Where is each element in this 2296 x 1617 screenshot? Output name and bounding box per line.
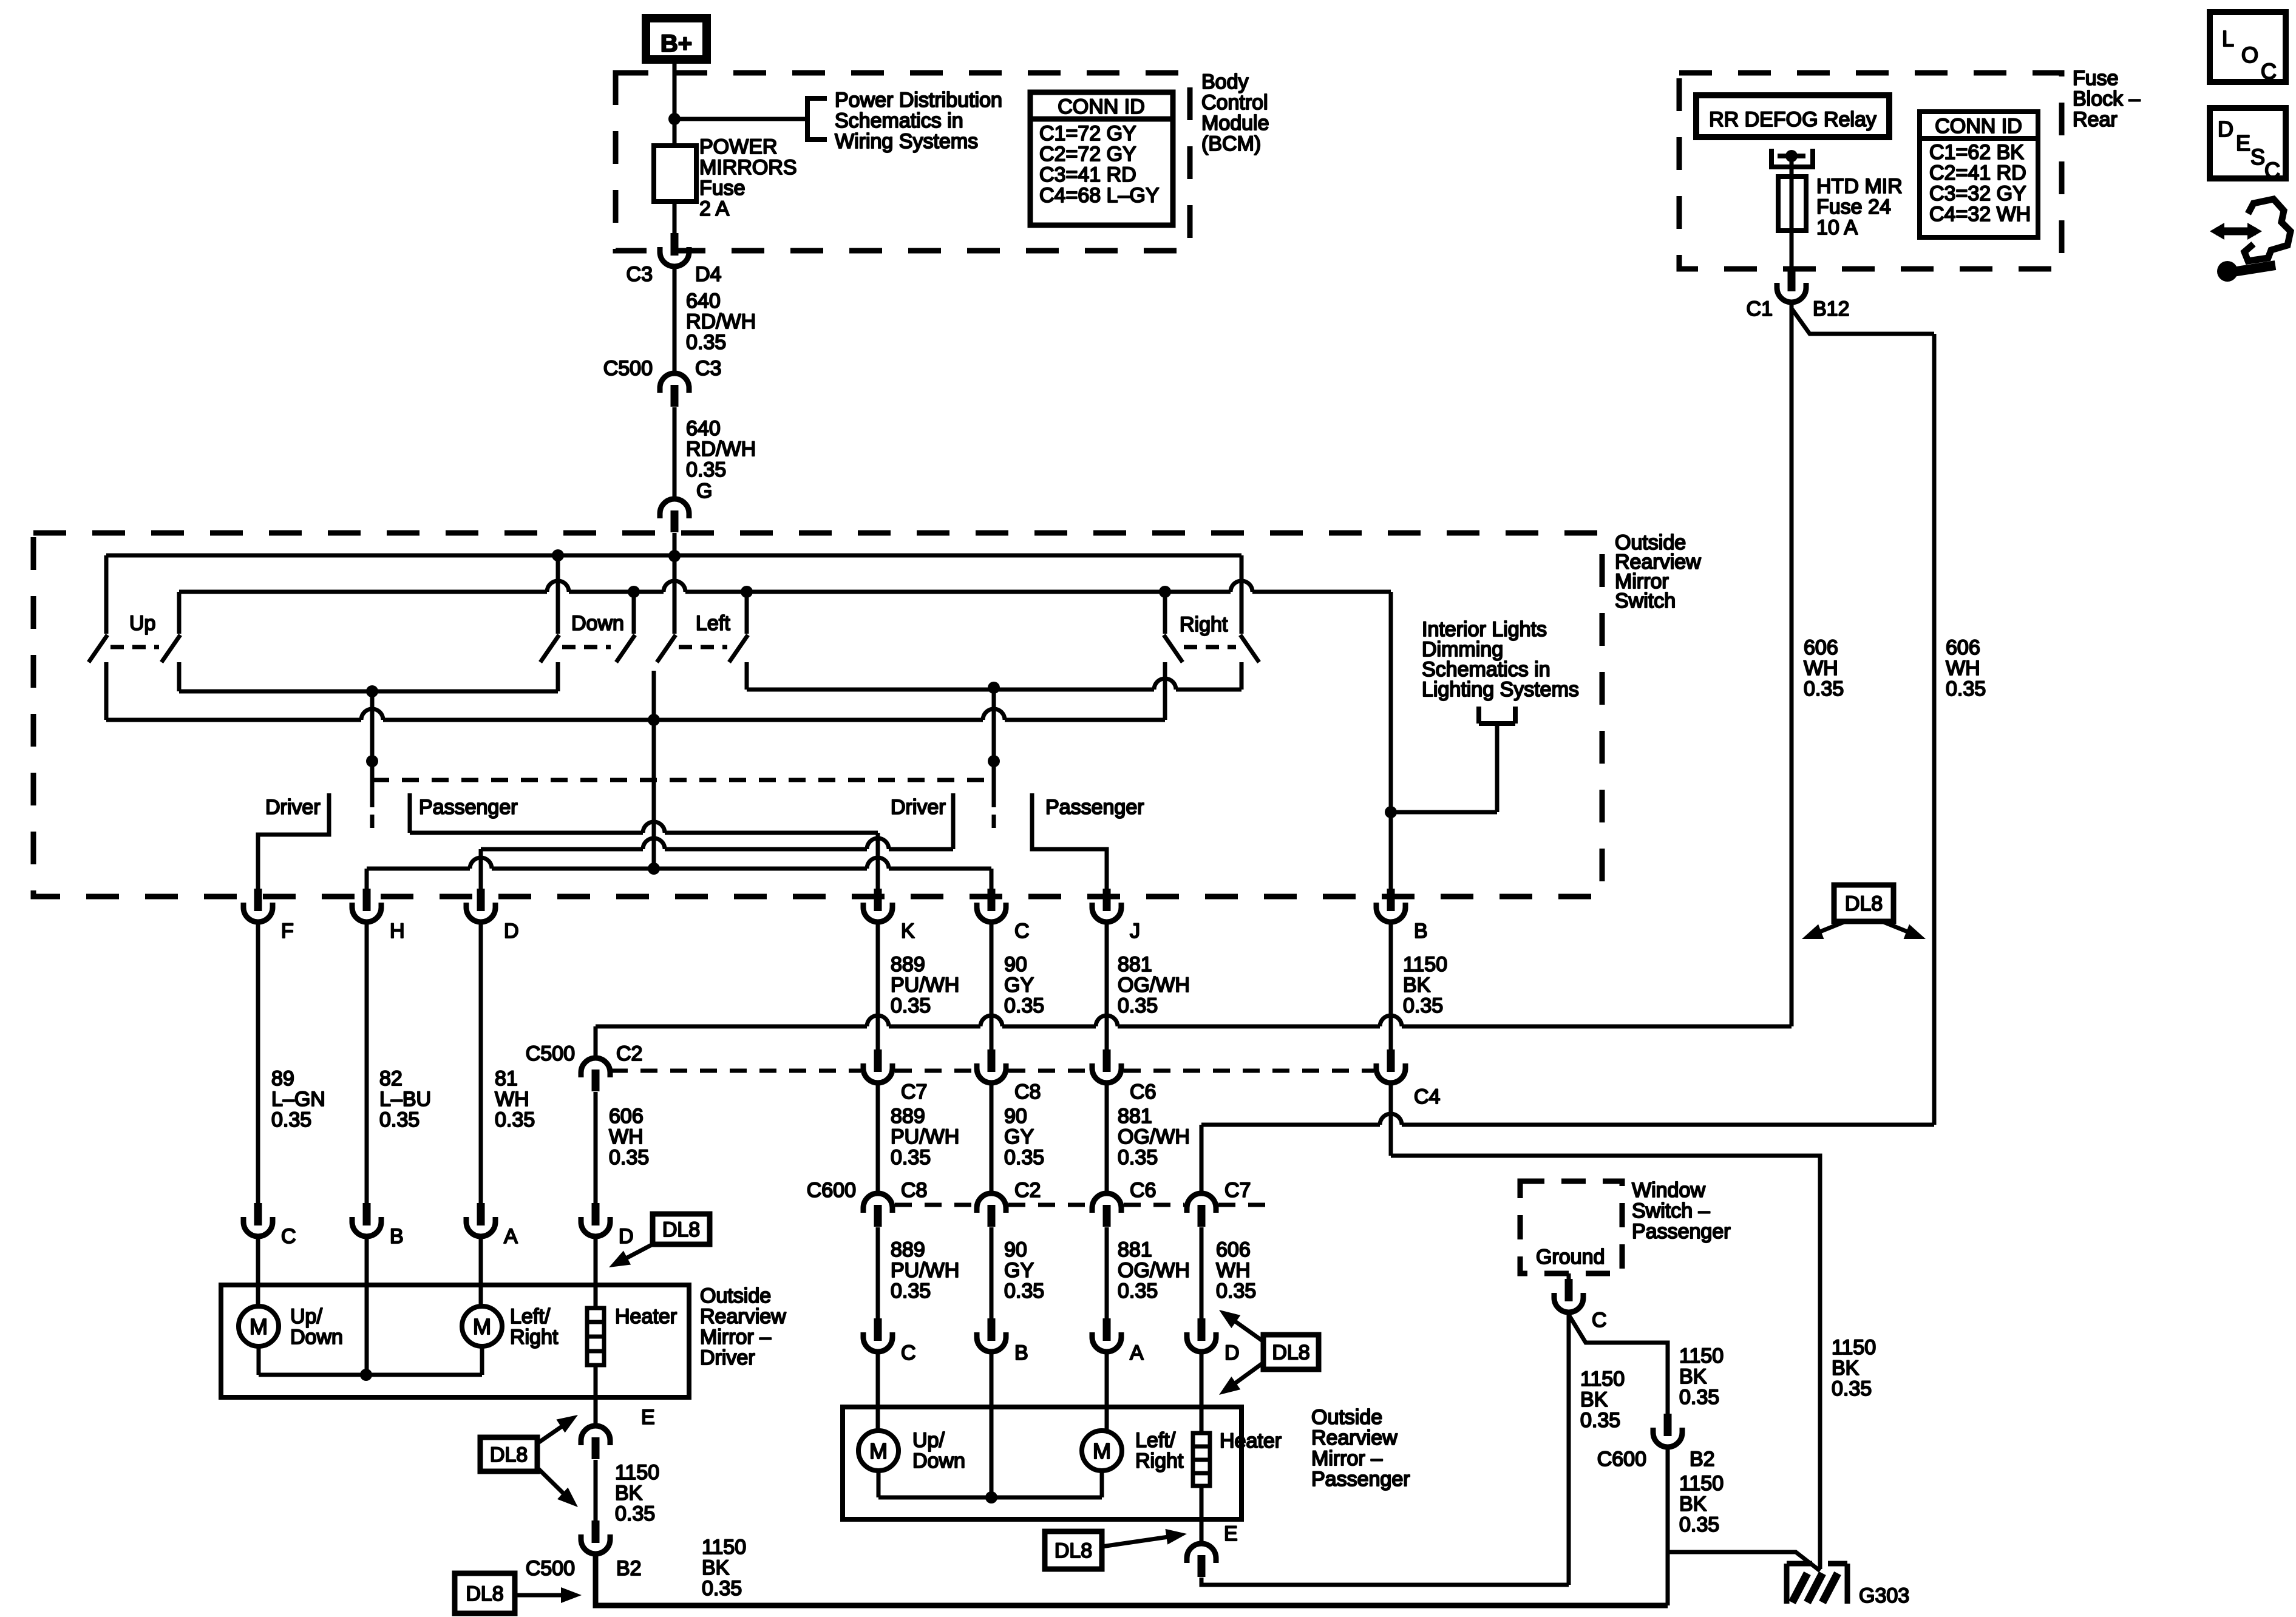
svg-text:C8: C8 [901, 1179, 927, 1202]
svg-text:PU/WH: PU/WH [891, 974, 959, 997]
svg-text:BK: BK [1580, 1388, 1608, 1411]
svg-text:C3=32 GY: C3=32 GY [1929, 182, 2026, 205]
svg-text:Up/: Up/ [912, 1429, 945, 1452]
svg-text:Heater: Heater [1220, 1429, 1282, 1453]
svg-text:Down: Down [290, 1326, 343, 1349]
svg-text:Right: Right [1180, 613, 1228, 636]
svg-text:Rearview: Rearview [700, 1305, 786, 1328]
svg-text:GY: GY [1004, 1125, 1034, 1148]
svg-text:Left/: Left/ [1135, 1429, 1176, 1452]
svg-text:L: L [2222, 26, 2234, 51]
svg-text:Body: Body [1201, 70, 1249, 93]
svg-text:Left/: Left/ [510, 1305, 551, 1328]
svg-text:CONN ID: CONN ID [1058, 95, 1145, 118]
svg-text:90: 90 [1004, 953, 1027, 976]
svg-text:1150: 1150 [1832, 1336, 1876, 1359]
svg-text:OG/WH: OG/WH [1118, 1125, 1190, 1148]
svg-text:BK: BK [1679, 1493, 1707, 1516]
svg-text:WH: WH [1804, 657, 1838, 680]
svg-text:C500: C500 [526, 1557, 575, 1580]
svg-text:B+: B+ [661, 30, 692, 57]
svg-text:C: C [2264, 158, 2280, 183]
svg-text:E: E [1224, 1522, 1238, 1545]
svg-text:B12: B12 [1813, 297, 1850, 320]
svg-text:E: E [2236, 131, 2250, 155]
svg-text:81: 81 [495, 1067, 518, 1090]
svg-text:0.35: 0.35 [1804, 677, 1844, 700]
svg-text:A: A [1130, 1341, 1144, 1364]
svg-text:GY: GY [1004, 974, 1034, 997]
svg-text:C2=72 GY: C2=72 GY [1039, 143, 1136, 166]
svg-text:C3: C3 [627, 263, 653, 286]
svg-text:C3: C3 [695, 357, 721, 380]
svg-text:C500: C500 [603, 357, 653, 380]
svg-text:C4=68 L–GY: C4=68 L–GY [1039, 184, 1160, 207]
svg-text:M: M [869, 1439, 888, 1463]
svg-text:0.35: 0.35 [1216, 1280, 1256, 1303]
svg-text:D: D [504, 920, 519, 943]
svg-text:B2: B2 [616, 1557, 642, 1580]
svg-text:C3=41 RD: C3=41 RD [1039, 163, 1136, 186]
svg-text:F: F [281, 920, 294, 943]
svg-text:O: O [2241, 42, 2258, 67]
svg-text:C4=32 WH: C4=32 WH [1929, 203, 2031, 226]
svg-text:Passenger: Passenger [419, 796, 518, 819]
svg-text:Rear: Rear [2073, 108, 2118, 131]
svg-text:H: H [390, 920, 405, 943]
svg-text:Lighting Systems: Lighting Systems [1422, 678, 1579, 701]
svg-text:1150: 1150 [1679, 1472, 1724, 1495]
svg-text:BK: BK [1832, 1357, 1860, 1380]
svg-text:C2=41 RD: C2=41 RD [1929, 161, 2026, 185]
svg-text:Fuse 24: Fuse 24 [1816, 195, 1891, 219]
svg-text:G: G [696, 480, 712, 503]
svg-text:C7: C7 [1224, 1179, 1251, 1202]
svg-text:J: J [1130, 920, 1140, 943]
svg-text:Down: Down [912, 1449, 965, 1473]
svg-text:WH: WH [609, 1125, 644, 1148]
svg-text:E: E [641, 1406, 655, 1429]
svg-text:Right: Right [510, 1326, 559, 1349]
svg-text:Window: Window [1632, 1179, 1705, 1202]
svg-text:0.35: 0.35 [686, 458, 726, 481]
svg-text:BK: BK [702, 1556, 730, 1579]
svg-text:Outside: Outside [700, 1284, 771, 1307]
svg-text:M: M [1093, 1439, 1111, 1463]
svg-text:CONN ID: CONN ID [1935, 115, 2022, 138]
svg-text:B: B [1014, 1341, 1028, 1364]
svg-text:C: C [281, 1225, 296, 1248]
svg-text:L–GN: L–GN [271, 1088, 325, 1111]
svg-text:Block –: Block – [2073, 87, 2141, 110]
svg-text:RD/WH: RD/WH [686, 310, 756, 333]
svg-text:DL8: DL8 [1272, 1341, 1309, 1364]
svg-text:C1: C1 [1747, 297, 1773, 320]
svg-text:0.35: 0.35 [1679, 1513, 1719, 1536]
svg-text:C7: C7 [901, 1080, 927, 1103]
svg-text:0.35: 0.35 [891, 1146, 931, 1169]
svg-text:889: 889 [891, 1105, 925, 1128]
svg-text:889: 889 [891, 953, 925, 976]
svg-text:889: 889 [891, 1238, 925, 1261]
svg-text:C6: C6 [1130, 1080, 1156, 1103]
svg-text:WH: WH [1216, 1259, 1251, 1282]
svg-text:C4: C4 [1414, 1085, 1440, 1108]
svg-text:0.35: 0.35 [609, 1146, 649, 1169]
svg-text:Up: Up [129, 612, 155, 635]
svg-text:D4: D4 [695, 263, 721, 286]
svg-text:B2: B2 [1690, 1448, 1715, 1471]
svg-text:Driver: Driver [891, 796, 946, 819]
svg-text:(BCM): (BCM) [1201, 132, 1261, 155]
svg-text:606: 606 [1946, 636, 1980, 659]
svg-text:0.35: 0.35 [1832, 1377, 1872, 1400]
svg-text:OG/WH: OG/WH [1118, 974, 1190, 997]
svg-text:1150: 1150 [702, 1536, 746, 1559]
svg-text:DL8: DL8 [1055, 1539, 1092, 1562]
svg-text:C: C [1014, 920, 1030, 943]
svg-text:Fuse: Fuse [2073, 67, 2119, 90]
svg-text:Control: Control [1201, 91, 1268, 114]
svg-text:881: 881 [1118, 953, 1152, 976]
svg-text:DL8: DL8 [662, 1218, 700, 1241]
svg-text:C: C [1592, 1309, 1607, 1332]
svg-text:POWER: POWER [699, 135, 777, 158]
svg-text:Module: Module [1201, 112, 1269, 135]
svg-text:Driver: Driver [265, 796, 321, 819]
svg-text:606: 606 [1216, 1238, 1251, 1261]
svg-text:Up/: Up/ [290, 1305, 322, 1328]
svg-text:0.35: 0.35 [702, 1577, 742, 1600]
svg-text:640: 640 [686, 290, 721, 313]
svg-text:0.35: 0.35 [686, 331, 726, 354]
svg-text:C8: C8 [1014, 1080, 1041, 1103]
svg-text:M: M [473, 1314, 491, 1339]
svg-text:Left: Left [696, 612, 730, 635]
svg-text:Mirror –: Mirror – [1311, 1447, 1382, 1470]
svg-text:2 A: 2 A [699, 197, 729, 220]
svg-text:WH: WH [495, 1088, 529, 1111]
svg-text:S: S [2250, 144, 2265, 169]
svg-text:RR DEFOG Relay: RR DEFOG Relay [1709, 108, 1877, 131]
svg-text:0.35: 0.35 [891, 1280, 931, 1303]
svg-text:Switch –: Switch – [1632, 1199, 1710, 1222]
svg-text:C: C [2261, 59, 2277, 84]
svg-text:0.35: 0.35 [1580, 1409, 1620, 1432]
svg-text:Wiring Systems: Wiring Systems [835, 130, 978, 153]
svg-text:0.35: 0.35 [1403, 994, 1443, 1017]
svg-text:10 A: 10 A [1816, 216, 1858, 239]
svg-text:C: C [901, 1341, 916, 1364]
svg-text:90: 90 [1004, 1238, 1027, 1261]
svg-text:RD/WH: RD/WH [686, 438, 756, 461]
svg-text:A: A [504, 1225, 518, 1248]
svg-text:881: 881 [1118, 1238, 1152, 1261]
svg-text:Fuse: Fuse [699, 177, 746, 200]
svg-text:Right: Right [1135, 1449, 1184, 1473]
svg-text:DL8: DL8 [490, 1443, 528, 1466]
svg-text:C2: C2 [1014, 1179, 1041, 1202]
svg-text:0.35: 0.35 [1004, 994, 1044, 1017]
svg-text:1150: 1150 [1679, 1344, 1724, 1368]
svg-text:89: 89 [271, 1067, 294, 1090]
svg-text:L–BU: L–BU [379, 1088, 431, 1111]
svg-text:0.35: 0.35 [1118, 1146, 1158, 1169]
svg-text:BK: BK [615, 1482, 643, 1505]
svg-text:K: K [901, 920, 915, 943]
svg-text:0.35: 0.35 [271, 1108, 311, 1131]
svg-text:C6: C6 [1130, 1179, 1156, 1202]
svg-text:PU/WH: PU/WH [891, 1259, 959, 1282]
svg-text:Switch: Switch [1615, 589, 1676, 612]
svg-text:Passenger: Passenger [1045, 796, 1144, 819]
svg-text:DL8: DL8 [1845, 892, 1883, 915]
svg-text:0.35: 0.35 [1679, 1386, 1719, 1409]
svg-text:Power Distribution: Power Distribution [835, 89, 1002, 112]
svg-text:Heater: Heater [615, 1305, 677, 1328]
svg-text:Mirror –: Mirror – [700, 1326, 771, 1349]
svg-text:1150: 1150 [1403, 953, 1447, 976]
svg-text:C1=72 GY: C1=72 GY [1039, 122, 1136, 145]
svg-text:Driver: Driver [700, 1346, 755, 1369]
svg-text:Outside: Outside [1311, 1406, 1382, 1429]
svg-text:1150: 1150 [615, 1461, 659, 1484]
svg-text:BK: BK [1679, 1365, 1707, 1388]
svg-text:0.35: 0.35 [615, 1502, 655, 1525]
svg-text:0.35: 0.35 [1946, 677, 1986, 700]
svg-text:0.35: 0.35 [1118, 994, 1158, 1017]
svg-text:C1=62 BK: C1=62 BK [1929, 141, 2024, 164]
svg-text:640: 640 [686, 417, 721, 440]
svg-text:C500: C500 [526, 1042, 575, 1065]
svg-text:D: D [619, 1225, 634, 1248]
svg-text:0.35: 0.35 [1004, 1280, 1044, 1303]
svg-text:G303: G303 [1859, 1584, 1909, 1607]
svg-text:PU/WH: PU/WH [891, 1125, 959, 1148]
svg-text:Down: Down [571, 612, 624, 635]
svg-text:D: D [1224, 1341, 1240, 1364]
svg-text:606: 606 [609, 1105, 644, 1128]
svg-text:881: 881 [1118, 1105, 1152, 1128]
svg-text:GY: GY [1004, 1259, 1034, 1282]
svg-text:MIRRORS: MIRRORS [699, 156, 797, 179]
svg-text:C600: C600 [1597, 1448, 1646, 1471]
svg-text:OG/WH: OG/WH [1118, 1259, 1190, 1282]
svg-text:82: 82 [379, 1067, 402, 1090]
svg-text:Passenger: Passenger [1632, 1220, 1731, 1243]
svg-text:B: B [390, 1225, 404, 1248]
svg-text:1150: 1150 [1580, 1368, 1625, 1391]
svg-text:0.35: 0.35 [891, 994, 931, 1017]
svg-text:DL8: DL8 [466, 1582, 503, 1605]
svg-text:Rearview: Rearview [1311, 1426, 1398, 1449]
svg-text:0.35: 0.35 [1118, 1280, 1158, 1303]
svg-text:BK: BK [1403, 974, 1431, 997]
svg-text:Ground: Ground [1536, 1246, 1605, 1269]
svg-text:0.35: 0.35 [495, 1108, 535, 1131]
svg-text:C600: C600 [807, 1179, 856, 1202]
svg-text:M: M [250, 1314, 268, 1339]
svg-text:WH: WH [1946, 657, 1980, 680]
svg-text:0.35: 0.35 [379, 1108, 419, 1131]
svg-text:D: D [2218, 117, 2233, 141]
svg-text:HTD MIR: HTD MIR [1816, 175, 1903, 198]
svg-text:606: 606 [1804, 636, 1838, 659]
svg-text:Schematics in: Schematics in [835, 109, 963, 132]
svg-text:0.35: 0.35 [1004, 1146, 1044, 1169]
svg-text:90: 90 [1004, 1105, 1027, 1128]
svg-text:Passenger: Passenger [1311, 1468, 1410, 1491]
svg-text:B: B [1414, 920, 1428, 943]
svg-text:C2: C2 [616, 1042, 642, 1065]
